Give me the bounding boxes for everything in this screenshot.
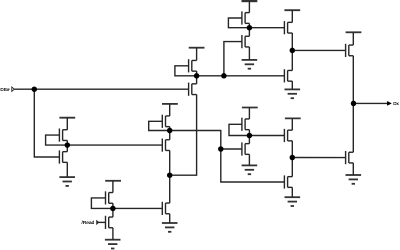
- wire T10 source to node M3: [291, 141, 293, 158]
- power bar VDD of T5: [346, 31, 362, 33]
- transistor TP: channel bar: [108, 193, 110, 204]
- transistor T8: source jog: [288, 186, 293, 188]
- wire node M9 to T7 gate: [221, 148, 242, 150]
- power bar VDD of TL1: [59, 117, 75, 119]
- junction node M2: [290, 48, 296, 54]
- power bar VDD of T6: [242, 107, 258, 109]
- transistor T3: source jog: [288, 32, 293, 34]
- power bar VDD of TA: [189, 47, 205, 49]
- junction node N1b: [221, 73, 227, 79]
- transistor T9: source jog: [349, 162, 354, 164]
- wire VDD stem TN: [169, 104, 171, 116]
- wire TB drain to node N1: [196, 76, 198, 84]
- transistor T3: drain jog: [288, 21, 293, 23]
- input port tick DBx: [8, 88, 11, 90]
- transistor T2: gate bar: [241, 35, 243, 48]
- transistor T7: source jog: [245, 153, 249, 155]
- transistor TP: source jog: [109, 202, 113, 204]
- wire gnd stem T7: [248, 154, 250, 165]
- junction node M5: [65, 142, 71, 148]
- transistor T10: gate bar: [283, 129, 285, 142]
- power bar VDD of T3: [284, 9, 300, 11]
- wire gate tie T1: [228, 18, 249, 28]
- label DBx: [0, 87, 9, 92]
- ground below TL2: [59, 177, 75, 186]
- transistor T10: drain jog: [288, 129, 293, 131]
- transistor T2: channel bar: [244, 36, 246, 47]
- transistor T3: channel bar: [287, 22, 289, 33]
- output arrowhead Dx: [387, 101, 391, 105]
- transistor TR: gate bar: [161, 202, 163, 215]
- transistor T7: gate bar: [241, 142, 243, 155]
- transistor TM: channel bar: [165, 140, 167, 151]
- wire TP source to node M7: [112, 203, 114, 208]
- transistor T10: channel bar: [287, 130, 289, 141]
- transistor T10: source jog: [288, 140, 293, 142]
- wire T3 source to node M2: [291, 33, 293, 50]
- ground below T7: [242, 165, 258, 174]
- transistor TN: source jog: [166, 126, 170, 128]
- transistor TA: drain jog: [192, 59, 197, 61]
- input port chevron /Read: [97, 221, 99, 224]
- transistor T4: channel bar: [287, 70, 289, 81]
- transistor T9: gate bar: [345, 151, 347, 164]
- transistor TQ: source jog: [109, 227, 113, 229]
- wire gnd stem TQ: [112, 228, 114, 240]
- wire DBx branch down to TL2 gate: [34, 89, 59, 157]
- junction node DBx junction: [32, 86, 38, 92]
- transistor TB: source jog: [192, 94, 197, 96]
- wire gnd stem T2: [248, 47, 250, 60]
- transistor TR: drain jog: [166, 202, 170, 204]
- power bar VDD of TP: [105, 180, 121, 182]
- wire TN source to node M8: [169, 127, 171, 131]
- transistor TN: channel bar: [165, 116, 167, 127]
- wire TL2 drain to node M5: [66, 145, 68, 152]
- transistor T9: channel bar: [348, 152, 350, 163]
- wire VDD stem T10: [291, 118, 293, 130]
- transistor TL1: drain jog: [63, 129, 68, 131]
- wire T6 source to node M4: [248, 130, 250, 136]
- wire VDD stem TL1: [66, 118, 68, 130]
- wire gate tie TP: [91, 198, 113, 209]
- transistor T2: source jog: [245, 46, 249, 48]
- transistor T2: drain jog: [245, 35, 249, 37]
- power bar VDD of T10: [285, 117, 301, 119]
- transistor T8: drain jog: [288, 176, 293, 178]
- svg-text:Dx: Dx: [393, 101, 399, 106]
- transistor T6: gate bar: [241, 118, 243, 131]
- transistor T1: drain jog: [245, 12, 249, 14]
- transistor T1: channel bar: [244, 13, 246, 24]
- wire node M3 to T9 gate: [292, 157, 345, 159]
- junction node M9: [218, 146, 224, 152]
- transistor TL2: source jog: [63, 161, 68, 163]
- transistor TM: source jog: [166, 149, 170, 151]
- wire TQ drain to node M7: [112, 208, 114, 217]
- ground below TQ: [105, 240, 121, 249]
- transistor T7: drain jog: [245, 143, 249, 145]
- ground below TR: [162, 223, 178, 232]
- transistor TM: drain jog: [166, 139, 170, 141]
- ground below T9: [346, 175, 362, 184]
- transistor TL1: channel bar: [62, 130, 64, 141]
- transistor TL2: channel bar: [62, 152, 64, 163]
- transistor T4: gate bar: [283, 69, 285, 82]
- transistor T8: channel bar: [287, 177, 289, 188]
- transistor T1: source jog: [245, 22, 249, 24]
- transistor TM: gate bar: [161, 139, 163, 152]
- wire node M7 to TR gate: [113, 207, 162, 209]
- transistor T5: drain jog: [349, 44, 354, 46]
- transistor TA: channel bar: [191, 60, 193, 71]
- svg-text:/Read: /Read: [82, 220, 95, 226]
- wire TL1 source to node M5: [66, 140, 68, 145]
- wire node M2 to T5 gate: [292, 49, 345, 51]
- junction node M4: [247, 133, 253, 139]
- transistor T4: drain jog: [288, 69, 293, 71]
- transistor TL1: source jog: [63, 139, 68, 141]
- wire VDD stem T6: [248, 108, 250, 120]
- wire gnd stem T9: [352, 163, 354, 175]
- wire node N1 up to T2 gate: [224, 42, 242, 76]
- wire T8 drain to node M3: [291, 158, 293, 177]
- junction node M3: [290, 155, 296, 161]
- wire T7 drain to node M4: [248, 136, 250, 144]
- wire TA source to node N1: [196, 71, 198, 76]
- transistor TL2: gate bar: [58, 150, 60, 163]
- transistor T6: channel bar: [244, 119, 246, 130]
- wire gnd stem TR: [169, 214, 171, 223]
- wire T2 drain to node M1: [248, 28, 250, 37]
- transistor T9: drain jog: [349, 151, 354, 153]
- wire gnd stem TL2: [66, 162, 68, 177]
- transistor T1: gate bar: [241, 11, 243, 24]
- wire VDD stem TA: [196, 48, 198, 61]
- transistor T3: gate bar: [283, 21, 285, 34]
- junction node M7: [110, 206, 116, 212]
- wire node M1 to T3 gate: [249, 27, 284, 29]
- wire TR drain to node M6: [169, 175, 171, 203]
- wire T1 source to node M1: [248, 23, 250, 27]
- wire gnd stem T8: [291, 187, 293, 197]
- wire TM source to node M6: [169, 150, 171, 175]
- transistor TA: gate bar: [188, 59, 190, 72]
- wire gnd stem T4: [291, 81, 293, 89]
- wire gate tie T6: [229, 124, 249, 135]
- transistor TQ: channel bar: [108, 217, 110, 228]
- junction node M1: [247, 25, 253, 31]
- transistor T7: channel bar: [244, 144, 246, 155]
- power bar VDD of T1: [242, 0, 258, 2]
- power bar VDD of TN: [162, 103, 178, 105]
- wire gate tie TN: [149, 121, 170, 130]
- transistor TB: gate bar: [188, 83, 190, 96]
- transistor TQ: gate bar: [105, 216, 107, 229]
- wire gate tie TL1: [46, 135, 68, 145]
- wire TB source down and left to node M6: [170, 95, 197, 176]
- transistor TP: drain jog: [109, 192, 113, 194]
- wire VDD stem TP: [112, 181, 114, 193]
- ground below T8: [285, 197, 301, 206]
- wire VDD stem T5: [352, 32, 354, 45]
- junction node output node: [351, 101, 357, 107]
- transistor TN: drain jog: [166, 115, 170, 117]
- wire VDD stem T1: [248, 1, 250, 13]
- transistor TB: channel bar: [191, 84, 193, 95]
- wire node M5 to TM gate: [67, 144, 162, 146]
- wire T5 source to output node to T9 drain: [352, 56, 354, 152]
- wire gate tie TA: [175, 66, 197, 76]
- transistor T5: gate bar: [345, 44, 347, 57]
- transistor TB: drain jog: [192, 83, 197, 85]
- transistor TR: channel bar: [165, 203, 167, 214]
- transistor TA: source jog: [192, 70, 197, 72]
- transistor T8: gate bar: [283, 175, 285, 188]
- junction node N1a: [194, 73, 200, 79]
- wire T4 drain to node M2: [291, 50, 293, 70]
- transistor T6: drain jog: [245, 118, 249, 120]
- wire Read port lead to TQ gate: [97, 221, 106, 223]
- wire TM drain to node M8: [169, 131, 171, 140]
- transistor TL2: drain jog: [63, 151, 68, 153]
- junction node M6: [167, 172, 173, 178]
- wire node M4 to T10 gate: [249, 135, 284, 137]
- svg-text:DBx: DBx: [0, 87, 9, 92]
- wire node M9 down to T8 gate: [221, 149, 285, 182]
- wire DBx net to TB gate: [14, 88, 188, 90]
- ground below T4: [285, 89, 301, 98]
- label /Read: [82, 220, 95, 226]
- transistor T6: source jog: [245, 129, 249, 131]
- transistor TQ: drain jog: [109, 216, 113, 218]
- junction node M8: [167, 128, 173, 134]
- transistor TR: source jog: [166, 213, 170, 215]
- wire output node to arrow: [353, 102, 388, 104]
- transistor T4: source jog: [288, 80, 293, 82]
- input port chevron DBx: [12, 87, 14, 91]
- transistor T5: channel bar: [348, 45, 350, 56]
- transistor TP: gate bar: [105, 191, 107, 204]
- label Dx: [393, 101, 399, 106]
- wire node N1 to T4 gate: [197, 75, 285, 77]
- transistor TN: gate bar: [161, 115, 163, 128]
- transistor TL1: gate bar: [58, 129, 60, 142]
- wire VDD stem T3: [291, 10, 293, 22]
- wire node M8 to node M9: [170, 131, 221, 150]
- ground below T2: [242, 60, 258, 69]
- transistor T5: source jog: [349, 55, 354, 57]
